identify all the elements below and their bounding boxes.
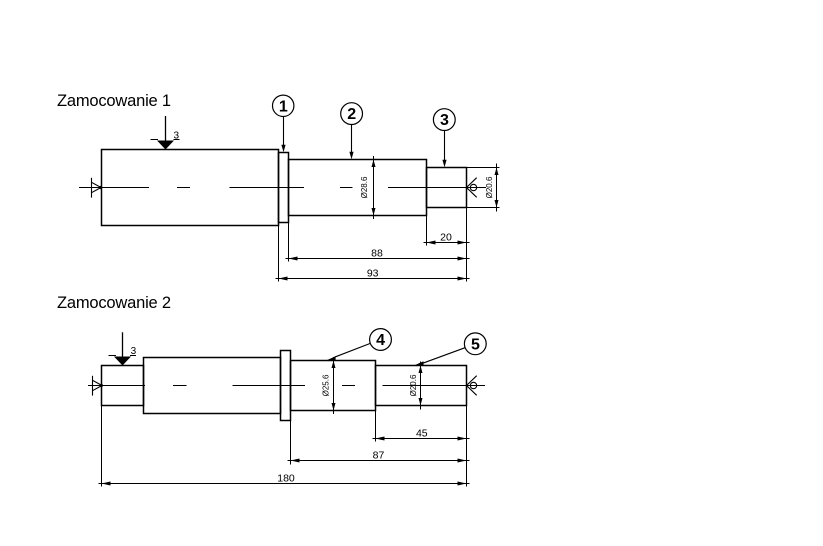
leader 2 <box>351 125 353 154</box>
dim diameter 28.6 drawing 1 <box>373 156 375 219</box>
shaft2 big section <box>144 358 281 414</box>
shaft2 stub <box>102 366 144 406</box>
svg-text:3: 3 <box>440 112 449 129</box>
balloon 4 <box>370 329 392 351</box>
dim diameter 20.6 drawing 2 <box>420 362 422 410</box>
svg-text:Ø20.6: Ø20.6 <box>409 374 418 396</box>
balloon 1 <box>273 95 294 116</box>
leader 1 <box>283 117 285 147</box>
shaft1 small section <box>427 168 467 208</box>
svg-text:93: 93 <box>367 267 379 279</box>
svg-text:3: 3 <box>174 131 180 142</box>
shaft1 middle section <box>289 160 427 216</box>
dim 88 <box>286 258 470 260</box>
datum left 1 <box>92 178 102 198</box>
svg-text:4: 4 <box>376 332 385 349</box>
svg-text:Zamocowanie 2: Zamocowanie 2 <box>57 294 171 312</box>
dim diameter 20.6 drawing 1 <box>467 164 500 212</box>
balloon 5 <box>464 333 486 355</box>
force arrow 1 <box>165 116 167 143</box>
leader 4 <box>335 343 371 357</box>
shaft2 section B <box>376 366 467 406</box>
dim 180 <box>99 483 470 485</box>
shaft2 collar <box>281 351 291 421</box>
extension lines drawing 2 <box>102 406 467 487</box>
svg-text:88: 88 <box>371 247 383 259</box>
svg-text:1: 1 <box>279 98 288 115</box>
centerline 2 <box>88 385 485 387</box>
centerline 1 <box>79 187 486 189</box>
dim 45 <box>373 438 470 440</box>
balloon 2 <box>341 103 363 125</box>
svg-text:3: 3 <box>131 346 137 357</box>
svg-text:87: 87 <box>373 449 385 461</box>
datum right 1 <box>467 178 477 198</box>
dim diameter 25.6 drawing 2 <box>333 357 335 414</box>
svg-text:Ø20.6: Ø20.6 <box>485 176 494 198</box>
dim 93 <box>276 278 470 280</box>
svg-text:Ø28.6: Ø28.6 <box>360 176 369 198</box>
balloon 3 <box>433 109 455 131</box>
force arrow 2 <box>122 332 124 359</box>
leader 5 <box>423 348 466 364</box>
svg-text:2: 2 <box>347 106 356 123</box>
leader 3 <box>444 131 446 162</box>
svg-text:Zamocowanie 1: Zamocowanie 1 <box>57 92 171 110</box>
shaft2 section A <box>291 361 376 411</box>
datum right 2 <box>467 376 477 396</box>
dim 20 <box>424 242 470 244</box>
svg-text:180: 180 <box>277 472 295 484</box>
svg-text:20: 20 <box>440 231 452 243</box>
svg-text:45: 45 <box>416 427 428 439</box>
shaft1 big section <box>102 150 279 226</box>
shaft1 collar <box>279 153 289 223</box>
svg-text:5: 5 <box>471 336 480 353</box>
dim 87 <box>288 460 470 462</box>
svg-text:Ø25.6: Ø25.6 <box>322 374 331 396</box>
datum left 2 <box>93 376 103 396</box>
extension lines drawing 1 <box>279 208 467 282</box>
